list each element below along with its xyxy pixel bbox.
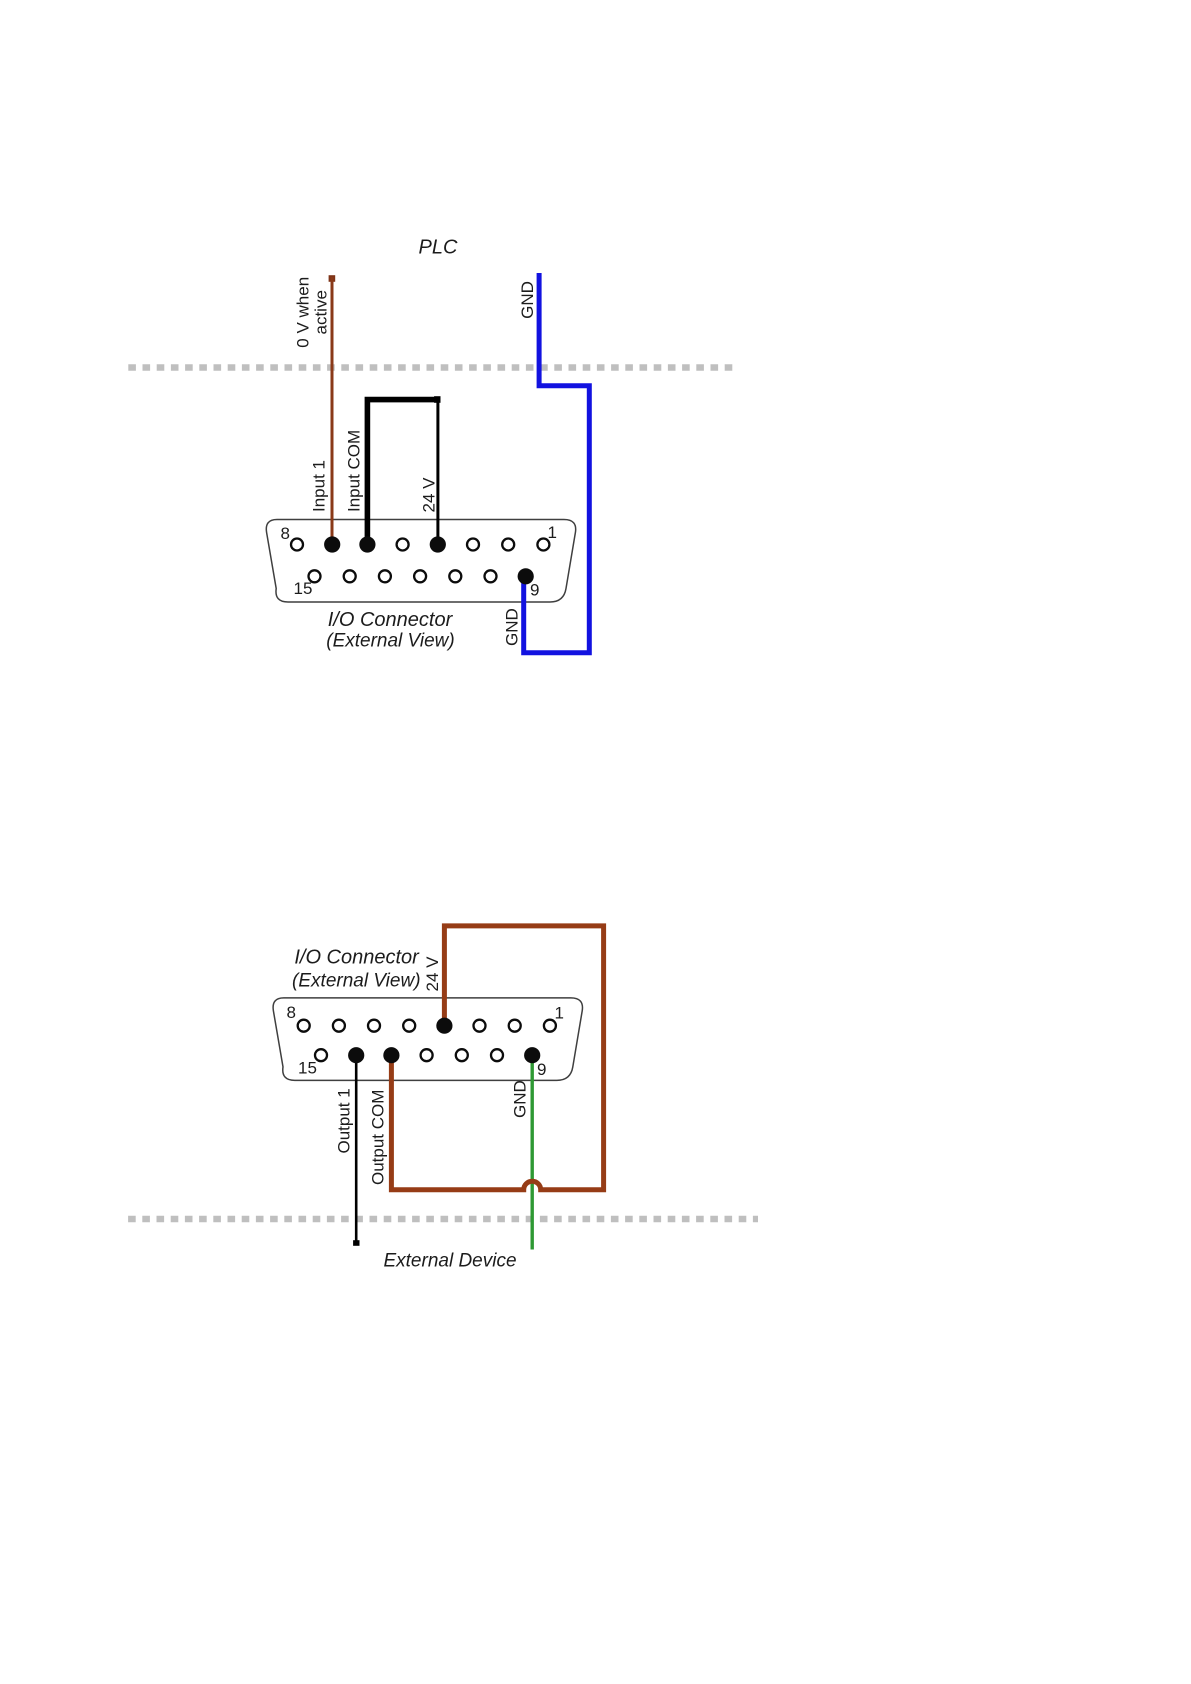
svg-text:GND: GND	[503, 608, 522, 646]
wire: 0V-when-active (brown) from PLC to Input 1 pin	[329, 275, 336, 544]
svg-text:(External View): (External View)	[292, 970, 420, 991]
pin number 15	[294, 579, 313, 598]
PLC device label	[419, 237, 458, 259]
svg-text:9: 9	[530, 581, 539, 600]
connector U1 pin 9 / GND (filled)	[518, 568, 534, 584]
label: Input 1 (rotated)	[310, 460, 329, 512]
wire: Input COM thick black loop	[367, 400, 438, 545]
connector U1 pin 3 (open)	[467, 539, 479, 551]
dashed boundary line (connector / external device)	[128, 1216, 758, 1222]
connector U2 DB-15 body (I/O Connector, external view)	[273, 998, 582, 1081]
connector U1 pin 13 (open)	[379, 570, 391, 582]
pin number 1 (bottom connector)	[555, 1003, 564, 1022]
connector U1 pin 5 (open)	[397, 539, 409, 551]
svg-text:9: 9	[537, 1060, 546, 1079]
connector U1 pin 12 (open)	[414, 570, 426, 582]
connector U2 pin 1 (open)	[544, 1020, 556, 1032]
connector U2 pin 6 (open)	[368, 1020, 380, 1032]
connector U2 pin 4 / 24 V (filled)	[436, 1018, 452, 1034]
svg-text:Input 1: Input 1	[310, 460, 329, 512]
pin number 9 (bottom connector)	[537, 1060, 546, 1079]
svg-text:GND: GND	[518, 281, 537, 319]
connector U1 pin 15 (open)	[309, 570, 321, 582]
svg-text:1: 1	[555, 1003, 564, 1022]
wire: 24 V thin black	[436, 400, 439, 545]
connector U2 pin 15 (open)	[315, 1049, 327, 1061]
svg-text:GND: GND	[511, 1080, 530, 1118]
svg-text:8: 8	[281, 524, 290, 543]
label: GND (rotated, bottom diagram)	[511, 1080, 530, 1118]
svg-text:8: 8	[287, 1003, 296, 1022]
connector U2 pin 14 / Output 1 (filled)	[348, 1047, 364, 1063]
pin number 1	[548, 523, 557, 542]
connector U2 pin 8 (open)	[298, 1020, 310, 1032]
caption: I/O Connector (External View)	[326, 609, 454, 652]
svg-text:Input COM: Input COM	[345, 430, 364, 512]
svg-text:24 V: 24 V	[420, 477, 439, 513]
connector U2 pin 3 (open)	[474, 1020, 486, 1032]
pin number 15 (bottom connector)	[298, 1059, 317, 1078]
label: 24 V (rotated, bottom diagram)	[423, 956, 442, 992]
label: GND at pin 9 (rotated)	[503, 608, 522, 646]
pin number 9	[530, 581, 539, 600]
wire: brown 24V loop from pin to Output COM with hump over green wire	[391, 926, 603, 1190]
connector U1 pin 7 / Input 1 (filled)	[324, 536, 340, 552]
connector U2 pin 9 / GND (filled)	[524, 1047, 540, 1063]
label: GND (PLC side, rotated)	[518, 281, 537, 319]
connector U1 pin 6 / Input COM (filled)	[359, 536, 375, 552]
pin number 8 (bottom connector)	[287, 1003, 296, 1022]
pin number 8	[281, 524, 290, 543]
wire: GND blue from PLC down around to pin 9	[524, 273, 590, 653]
wire: Output 1 black to external device	[353, 1055, 359, 1246]
label: Output COM (rotated)	[369, 1090, 388, 1185]
connector U1 pin 2 (open)	[502, 539, 514, 551]
svg-text:Output 1: Output 1	[335, 1088, 354, 1153]
svg-text:(External View): (External View)	[326, 631, 454, 652]
svg-text:I/O Connector: I/O Connector	[328, 609, 454, 631]
svg-text:15: 15	[294, 579, 313, 598]
connector U2 pin 2 (open)	[509, 1020, 521, 1032]
connector U2 pin 12 (open)	[421, 1049, 433, 1061]
connector U2 pin 13 / Output COM (filled)	[383, 1047, 399, 1063]
svg-text:Output COM: Output COM	[369, 1090, 388, 1185]
connector U1 pin 1 (open)	[537, 539, 549, 551]
connector U1 pin 8 (open)	[291, 539, 303, 551]
svg-text:External Device: External Device	[383, 1251, 516, 1272]
svg-text:0 V when: 0 V when	[294, 277, 313, 348]
svg-text:PLC: PLC	[419, 237, 458, 259]
label: Input COM (rotated)	[345, 430, 364, 512]
connector U1 pin 4 / 24 V (filled)	[430, 536, 446, 552]
connector U2 pin 5 (open)	[403, 1020, 415, 1032]
label: 0 V when active (rotated)	[294, 277, 331, 348]
connector U2 pin 11 (open)	[456, 1049, 468, 1061]
svg-text:I/O Connector: I/O Connector	[294, 946, 420, 968]
connector U1 pin 11 (open)	[449, 570, 461, 582]
wire junction cap at top of 24V wire	[434, 396, 440, 403]
label: 24 V (rotated)	[420, 477, 439, 513]
connector U1 DB-15 body (I/O Connector, external view)	[266, 520, 575, 603]
connector U2 pin 10 (open)	[491, 1049, 503, 1061]
External Device label	[383, 1251, 516, 1272]
connector U2 pin 7 (open)	[333, 1020, 345, 1032]
svg-text:15: 15	[298, 1059, 317, 1078]
label: Output 1 (rotated)	[335, 1088, 354, 1153]
caption: I/O Connector (External View) (bottom)	[292, 946, 420, 991]
dashed boundary line (PLC / connector)	[128, 364, 733, 370]
connector U1 pin 14 (open)	[344, 570, 356, 582]
connector U1 pin 10 (open)	[485, 570, 497, 582]
svg-text:1: 1	[548, 523, 557, 542]
wire: green GND from pin 9 to external device	[531, 1055, 534, 1249]
svg-text:active: active	[312, 290, 331, 334]
svg-text:24 V: 24 V	[423, 956, 442, 992]
